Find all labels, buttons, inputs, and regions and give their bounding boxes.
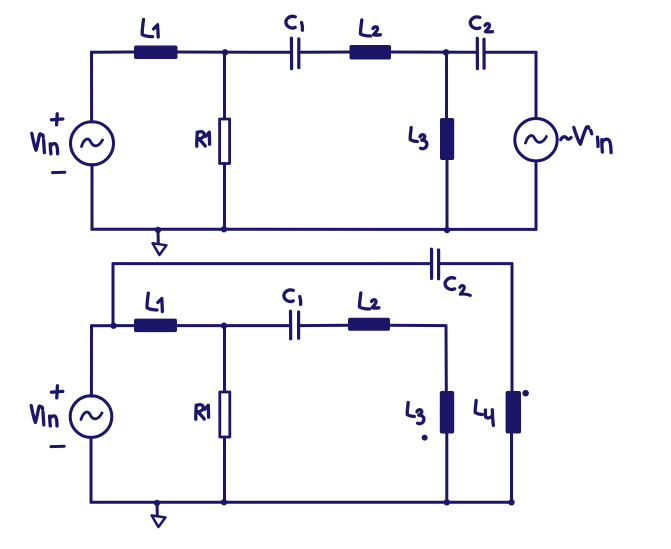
capacitor C2 bbox=[477, 38, 484, 68]
junction node (main wire / R1, bottom ckt) bbox=[221, 323, 227, 329]
label - (bottom Vin) bbox=[51, 445, 64, 448]
label ~V'in bbox=[561, 127, 611, 153]
inductor L4 bbox=[506, 391, 521, 434]
junction node (bottom wire / L3, bottom ckt) bbox=[444, 499, 450, 505]
label C1 bbox=[286, 16, 303, 30]
voltage source -V'in (right) bbox=[515, 119, 557, 161]
wire bottom bbox=[92, 228, 536, 231]
wire left vertical lower bbox=[91, 165, 94, 229]
label - (top Vin) bbox=[53, 171, 65, 174]
wire C2 branch vertical stub bbox=[112, 264, 115, 326]
junction node (top wire / L3) bbox=[443, 49, 449, 55]
polarity dot L3 bbox=[422, 435, 428, 441]
wire main top (L1 to R1 node to C1) bbox=[175, 324, 290, 327]
junction node (bottom wire / ground, bottom ckt) bbox=[154, 500, 160, 506]
wire C2 branch horizontal right bbox=[439, 262, 512, 265]
polarity dot L4 bbox=[522, 390, 529, 397]
label C2 (bottom) bbox=[445, 278, 470, 296]
voltage source Vin (bottom) bbox=[90, 326, 93, 397]
label L3 (top) bbox=[410, 128, 427, 149]
wire top (C1 to L2) bbox=[299, 51, 352, 54]
label R1 (bottom) bbox=[196, 405, 209, 420]
junction node (bottom wire / R1, bottom ckt) bbox=[221, 499, 227, 505]
wire right vertical lower bbox=[535, 161, 538, 229]
wire top (L1 to C1) bbox=[176, 51, 291, 54]
label R1 (top) bbox=[197, 132, 210, 147]
wire right vertical upper bbox=[535, 52, 538, 118]
junction node (bottom wire / L4) bbox=[508, 499, 514, 505]
wire main top left (bottom ckt) bbox=[92, 324, 137, 327]
wire top (C2 to right corner) bbox=[484, 51, 536, 54]
label L2 (bottom) bbox=[359, 293, 378, 309]
wire main top (L2 to L3 corner) bbox=[388, 324, 446, 327]
label L1 (bottom) bbox=[147, 293, 162, 311]
inductor L3 (top) bbox=[445, 52, 448, 118]
wire left vertical upper bbox=[90, 52, 93, 122]
capacitor C1 bbox=[291, 38, 298, 68]
junction node (bottom wire / R1, top ckt) bbox=[221, 226, 227, 232]
wire main top (C1 to L2) bbox=[299, 324, 350, 327]
resistor R1 (top) bbox=[223, 52, 226, 119]
label + (bottom Vin) bbox=[52, 386, 63, 398]
wire top (L2 to C2) bbox=[389, 51, 477, 54]
resistor R1 (bottom) bbox=[223, 326, 226, 392]
label + (top Vin) bbox=[52, 114, 63, 125]
junction node (bottom wire / L3, top ckt) bbox=[444, 227, 450, 233]
inductor L1 bbox=[134, 46, 178, 60]
label L2 bbox=[360, 20, 380, 36]
junction node (bottom wire / ground, top ckt) bbox=[155, 227, 161, 233]
inductor L2 bbox=[350, 45, 392, 60]
capacitor C1 (bottom) bbox=[291, 311, 299, 339]
voltage source Vin (top) bbox=[71, 122, 114, 165]
label L3 (bottom) bbox=[407, 403, 424, 424]
label Vin (bottom) bbox=[31, 406, 57, 426]
inductor L3 (bottom) bbox=[445, 326, 448, 391]
wire top left (Vin to L1) bbox=[92, 51, 137, 54]
label L1 bbox=[142, 20, 158, 38]
label C1 (bottom) bbox=[284, 290, 301, 304]
ground (bottom) bbox=[156, 504, 159, 515]
capacitor C2 (bottom) bbox=[432, 249, 439, 279]
wire bottom (bottom ckt) bbox=[91, 501, 512, 504]
junction node (C2 stub / main wire) bbox=[110, 323, 116, 329]
wire right vertical upper (to L4) bbox=[511, 264, 514, 391]
label L4 bbox=[475, 401, 493, 426]
label C2 bbox=[470, 17, 492, 32]
inductor L2 (bottom) bbox=[348, 318, 390, 331]
ground (top) bbox=[157, 231, 160, 243]
wire right vertical lower (L4 to bottom) bbox=[510, 434, 513, 503]
junction node (top wire / R1) bbox=[222, 49, 228, 55]
inductor L1 (bottom) bbox=[134, 319, 177, 333]
wire C2 branch horizontal left bbox=[113, 262, 431, 265]
label Vin (top) bbox=[32, 133, 58, 153]
